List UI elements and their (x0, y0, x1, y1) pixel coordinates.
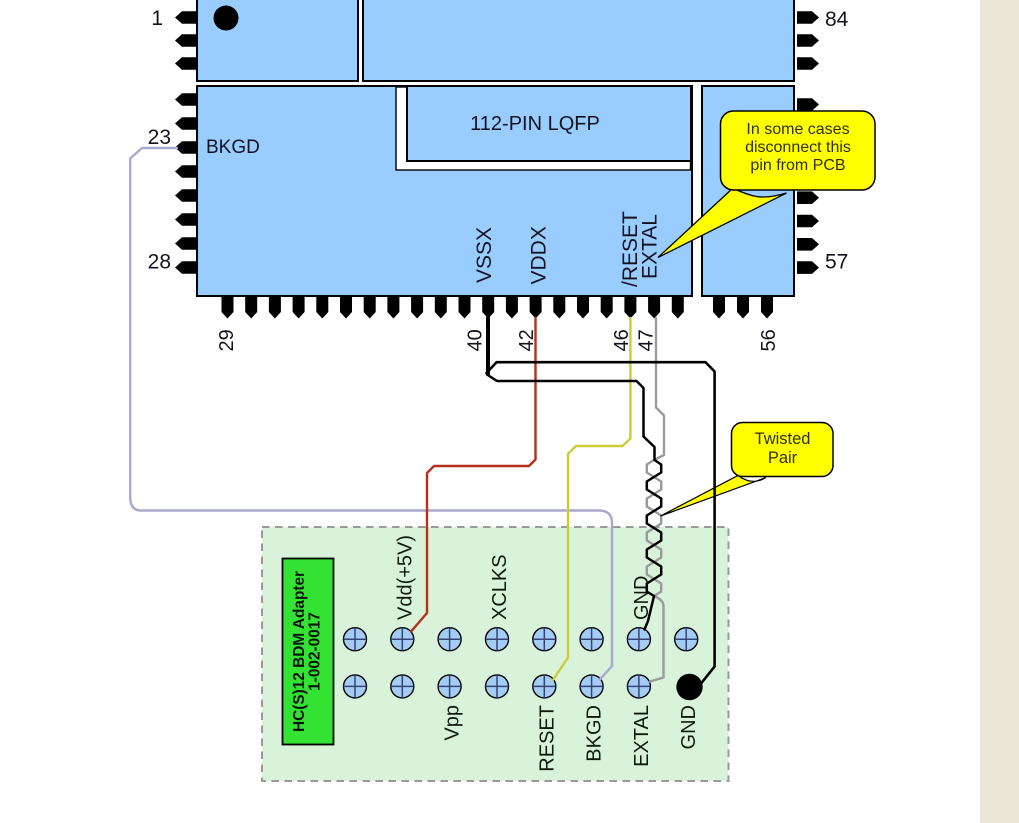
svg-text:BKGD: BKGD (206, 137, 260, 158)
svg-text:Pair: Pair (768, 449, 798, 467)
svg-text:56: 56 (758, 329, 780, 351)
svg-text:1-002-0017: 1-002-0017 (307, 612, 324, 691)
svg-text:40: 40 (465, 329, 487, 351)
svg-text:XCLKS: XCLKS (489, 554, 511, 620)
svg-text:84: 84 (825, 8, 849, 31)
svg-text:disconnect this: disconnect this (745, 139, 851, 156)
svg-text:EXTAL: EXTAL (631, 705, 653, 767)
svg-text:47: 47 (636, 329, 658, 351)
svg-text:BKGD: BKGD (584, 705, 606, 762)
svg-text:In some cases: In some cases (746, 121, 849, 138)
svg-text:Vdd(+5V): Vdd(+5V) (394, 535, 416, 620)
svg-text:EXTAL: EXTAL (639, 214, 662, 279)
svg-text:Twisted: Twisted (755, 430, 811, 448)
svg-text:VDDX: VDDX (528, 226, 551, 284)
svg-text:pin from PCB: pin from PCB (750, 157, 845, 174)
svg-text:HC(S)12 BDM Adapter: HC(S)12 BDM Adapter (291, 571, 308, 732)
svg-text:57: 57 (825, 251, 848, 274)
svg-text:112-PIN LQFP: 112-PIN LQFP (470, 113, 600, 135)
svg-text:VSSX: VSSX (473, 227, 496, 283)
svg-text:RESET: RESET (536, 705, 558, 772)
svg-text:29: 29 (216, 329, 238, 351)
svg-text:23: 23 (148, 126, 171, 149)
svg-text:28: 28 (148, 251, 171, 274)
svg-text:Vpp: Vpp (442, 705, 464, 741)
svg-text:1: 1 (151, 7, 163, 30)
svg-text:GND: GND (678, 705, 700, 749)
